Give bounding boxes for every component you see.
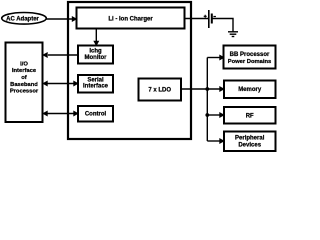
svg-text:RF: RF	[246, 113, 254, 119]
arrow into peripheral devices	[219, 138, 225, 144]
svg-text:Interface: Interface	[83, 84, 109, 90]
memory block	[224, 81, 276, 99]
junction at RF branch	[205, 113, 209, 117]
RF block	[224, 107, 276, 124]
svg-text:Monitor: Monitor	[85, 55, 108, 61]
wire bus to RF	[207, 114, 219, 116]
wire battery to ground	[212, 19, 233, 32]
svg-text:Memory: Memory	[238, 87, 262, 93]
svg-text:Li - Ion Charger: Li - Ion Charger	[108, 17, 153, 23]
Ichg monitor block	[78, 46, 113, 64]
I/O interface of baseband processor block	[6, 43, 43, 123]
wire charger to battery	[185, 18, 209, 20]
svg-text:Processor: Processor	[10, 89, 39, 95]
svg-text:Peripheral: Peripheral	[235, 136, 265, 142]
Li-Ion charger block	[77, 8, 185, 29]
wire serial interface to I/O interface	[47, 83, 74, 85]
junction at memory branch	[205, 87, 209, 91]
svg-text:BB Processor: BB Processor	[230, 52, 270, 58]
svg-text:Ichg: Ichg	[89, 49, 102, 55]
wire bus to BB processor power domains	[207, 57, 219, 59]
arrow into BB processor power domains	[219, 55, 225, 61]
wire bus to peripheral devices	[207, 140, 219, 142]
arrow into I/O interface (control)	[42, 111, 48, 117]
wire Ichg monitor to I/O interface	[48, 54, 78, 56]
wire AC adapter to charger	[46, 18, 73, 20]
wire control to I/O interface	[47, 113, 74, 115]
svg-text:Interface: Interface	[12, 68, 37, 74]
LDO output bus	[206, 58, 208, 142]
arrow into serial interface	[73, 81, 79, 87]
arrow into I/O interface (from Ichg)	[42, 52, 48, 58]
svg-text:Baseband: Baseband	[10, 82, 38, 88]
battery B1	[204, 10, 216, 28]
svg-text:of: of	[21, 75, 27, 81]
7 x LDO block	[139, 79, 182, 101]
svg-text:AC Adapter: AC Adapter	[6, 17, 39, 23]
arrow into charger	[72, 16, 78, 22]
svg-text:Power Domains: Power Domains	[228, 59, 272, 65]
BB processor power domains block	[224, 46, 276, 69]
svg-text:Serial: Serial	[87, 77, 104, 83]
serial interface block	[78, 75, 113, 93]
peripheral devices block	[224, 132, 276, 152]
arrow into RF	[219, 112, 225, 118]
wire LDO to memory / bus	[181, 88, 220, 90]
svg-text:I/O: I/O	[20, 61, 28, 67]
svg-text:Control: Control	[85, 112, 107, 118]
control block	[78, 106, 113, 122]
arrow into I/O interface (serial)	[42, 81, 48, 87]
PMIC outer boundary box	[68, 2, 191, 139]
wire charger to Ichg monitor	[95, 29, 97, 42]
svg-text:Devices: Devices	[238, 143, 261, 149]
AC adapter source	[2, 12, 47, 24]
arrow into memory	[219, 86, 225, 92]
arrow into Ichg monitor	[93, 41, 99, 47]
svg-text:7 x LDO: 7 x LDO	[148, 88, 171, 94]
arrow into control	[73, 111, 79, 117]
ground	[228, 32, 238, 37]
